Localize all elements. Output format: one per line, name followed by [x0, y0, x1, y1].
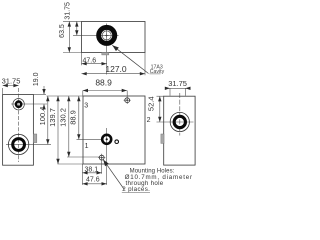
svg-text:100.4: 100.4: [38, 107, 47, 126]
svg-text:139.7: 139.7: [48, 108, 57, 127]
svg-text:31.75: 31.75: [2, 76, 21, 85]
svg-text:19.0: 19.0: [33, 72, 40, 86]
svg-text:31.75: 31.75: [65, 2, 72, 20]
svg-text:88.9: 88.9: [69, 110, 78, 125]
svg-text:47.6: 47.6: [86, 177, 100, 184]
svg-text:3: 3: [84, 103, 88, 110]
svg-text:1: 1: [85, 143, 89, 150]
svg-text:52.4: 52.4: [146, 96, 155, 111]
svg-text:2 places.: 2 places.: [122, 186, 150, 193]
svg-text:130.2: 130.2: [59, 108, 68, 127]
svg-text:88.9: 88.9: [95, 77, 112, 87]
svg-text:38.1: 38.1: [84, 166, 98, 173]
svg-text:47.6: 47.6: [82, 57, 96, 64]
svg-text:2: 2: [147, 117, 151, 124]
svg-text:31.75: 31.75: [168, 79, 187, 88]
svg-text:63.5: 63.5: [59, 24, 66, 38]
svg-text:127.0: 127.0: [105, 64, 127, 74]
